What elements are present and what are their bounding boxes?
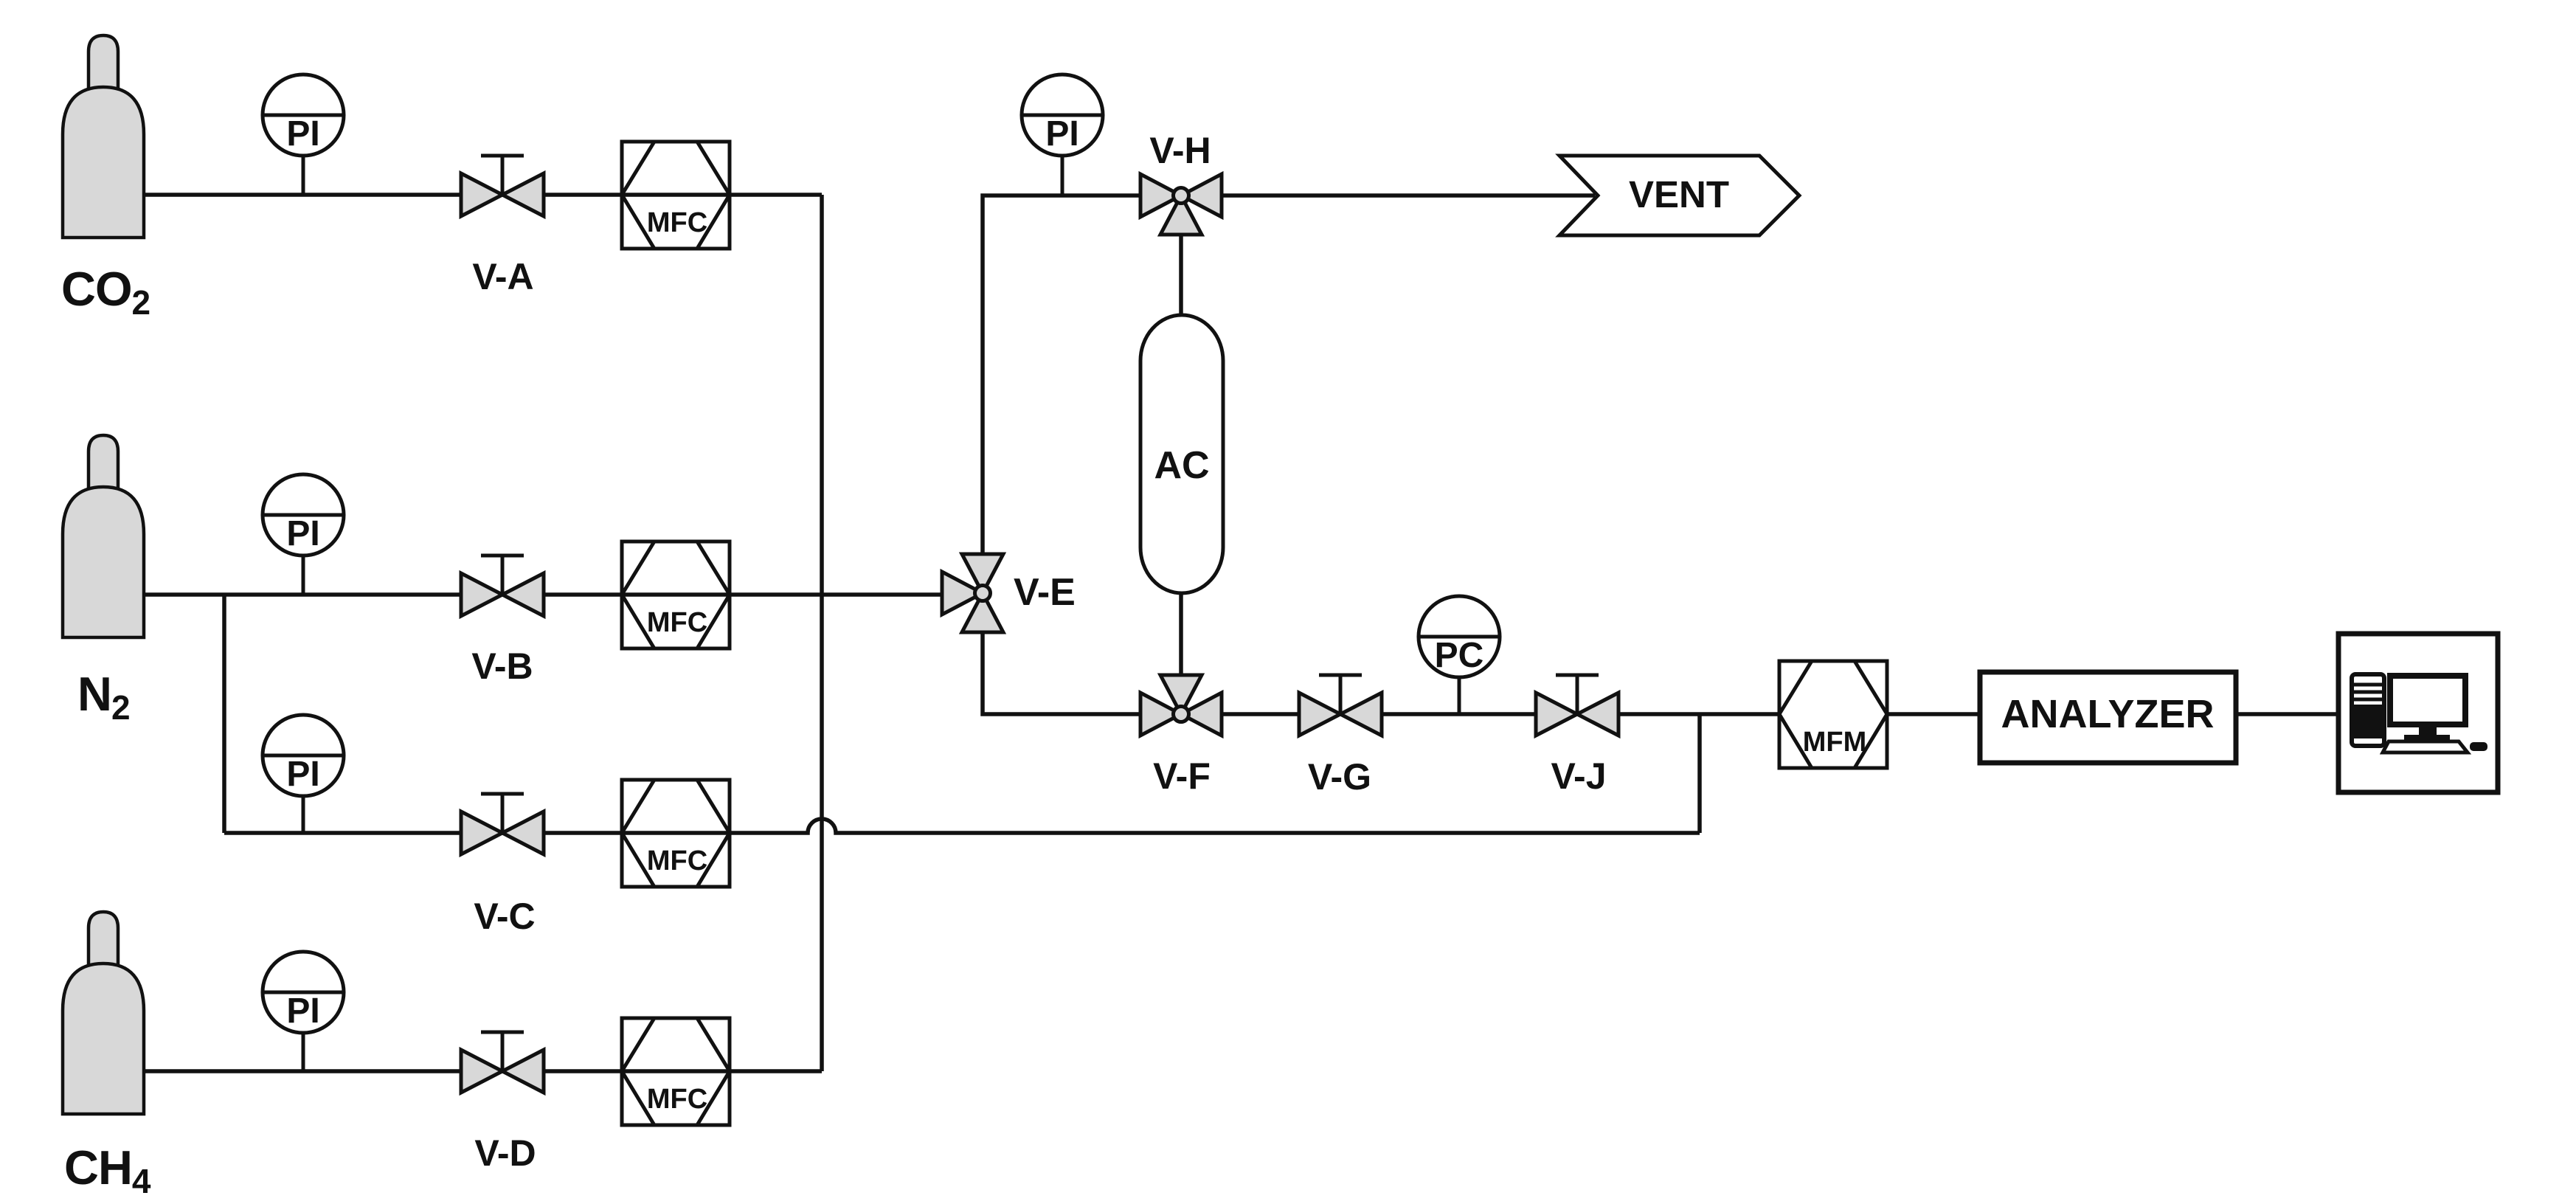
ANALYZER unit (1980, 672, 2236, 763)
wire main line V-F to V-G (1221, 712, 1299, 716)
valve V-B (461, 556, 544, 616)
gas cylinder CH4 (63, 912, 144, 1114)
wire V-E outlet to V-F (983, 632, 1140, 714)
svg-text:V-J: V-J (1551, 755, 1606, 797)
gas cylinder CO2 (63, 35, 144, 238)
wire V-E riser to vent header (983, 196, 1141, 556)
svg-text:VENT: VENT (1629, 173, 1729, 215)
VENT off-page arrow (1559, 156, 1799, 235)
valve V-A (461, 156, 544, 216)
wire CO2/CH4 manifold vertical (820, 195, 824, 1071)
svg-text:PI: PI (1045, 114, 1078, 153)
svg-text:ANALYZER: ANALYZER (2001, 692, 2214, 736)
svg-text:PC: PC (1435, 636, 1484, 675)
computer data acquisition box (2338, 634, 2498, 792)
valve V-J (1536, 675, 1618, 736)
three-way valve V-E (942, 554, 1003, 632)
svg-text:PI: PI (286, 755, 319, 794)
svg-text:V-D: V-D (474, 1132, 536, 1174)
mass flow meter MFM (1779, 661, 1887, 768)
pressure gauge PI (N2 line) (263, 474, 344, 595)
svg-text:V-E: V-E (1014, 571, 1076, 614)
mass flow controller MFC (N2) (622, 542, 730, 648)
wire main line V-G to V-J (1382, 712, 1536, 716)
pressure gauge PI (CH4 line) (263, 952, 344, 1071)
svg-text:AC: AC (1154, 444, 1209, 487)
pressure controller PC (1419, 596, 1500, 714)
pressure gauge PI (bypass line) (263, 715, 344, 833)
wire CO2 supply line (144, 193, 822, 197)
wire vent header V-H to VENT (1221, 193, 1595, 198)
svg-text:V-A: V-A (472, 256, 533, 297)
svg-text:V-H: V-H (1149, 130, 1211, 171)
pressure gauge PI (vent header) (1022, 75, 1103, 196)
valve V-G (1299, 675, 1382, 736)
wire N2 branch drop (222, 595, 226, 833)
svg-text:MFC: MFC (647, 1084, 707, 1115)
mass flow controller MFC (CO2) (622, 142, 730, 249)
svg-text:MFC: MFC (647, 845, 707, 876)
valve V-D (461, 1032, 544, 1093)
svg-text:MFC: MFC (647, 207, 707, 238)
three-way valve V-H (1140, 174, 1222, 235)
wire N2 supply line (144, 592, 941, 597)
adsorption column AC (1140, 315, 1223, 593)
svg-text:V-G: V-G (1308, 756, 1371, 798)
svg-text:MFM: MFM (1803, 727, 1867, 758)
svg-text:PI: PI (286, 514, 319, 553)
mass flow controller MFC (CH4) (622, 1018, 730, 1125)
wire CH4 supply line (144, 1069, 822, 1073)
svg-text:V-C: V-C (474, 896, 535, 937)
wire main line V-J to MFM (1618, 712, 1779, 716)
wire bypass riser junction (1697, 714, 1702, 833)
svg-text:PI: PI (286, 114, 319, 153)
svg-text:PI: PI (286, 992, 319, 1031)
svg-text:V-B: V-B (471, 646, 533, 687)
wire ANALYZER to computer (2236, 712, 2338, 716)
svg-text:V-F: V-F (1153, 755, 1211, 797)
pressure gauge PI (CO2 line) (263, 75, 344, 195)
wire AC column down to V-F (1179, 593, 1183, 674)
wire V-H down to AC column (1179, 234, 1183, 315)
wire V-C bypass line with hop over manifold (224, 819, 1700, 833)
gas cylinder N2 (63, 435, 144, 637)
valve V-C (461, 794, 544, 854)
three-way valve V-F (1140, 675, 1222, 736)
mass flow controller MFC (bypass) (622, 780, 730, 887)
svg-text:MFC: MFC (647, 607, 707, 638)
wire MFM to ANALYZER (1888, 712, 1980, 716)
